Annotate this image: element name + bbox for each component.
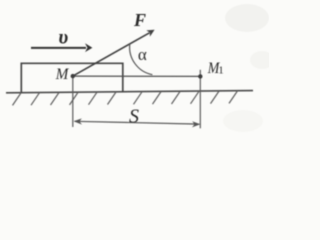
force F arrow [73,33,150,76]
svg-text:1: 1 [218,64,224,76]
block M [21,63,123,92]
node M1 dot [198,74,202,78]
extension line from M down [72,76,74,127]
velocity v arrow [31,47,86,49]
node M dot [71,74,75,78]
angle arc alpha [130,44,153,75]
svg-text:S: S [129,106,139,128]
S dimension line [75,121,200,124]
extension line from M1 down [199,70,201,129]
ground [6,91,253,93]
svg-text:υ: υ [58,26,68,48]
svg-text:F: F [133,10,146,30]
svg-text:α: α [138,45,147,64]
hatching [13,91,238,106]
scan smudge top right [225,4,269,32]
svg-text:M: M [55,66,70,83]
line M to M1 [73,75,201,77]
